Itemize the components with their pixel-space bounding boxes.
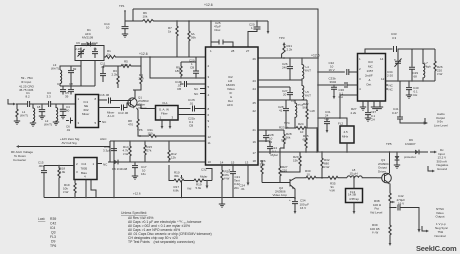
svg-text:¼W: ¼W [324,165,330,169]
svg-text:FL1: FL1 [163,101,169,105]
svg-text:C10: C10 [92,41,98,45]
wire IC3 bottom pins [363,101,380,112]
svg-text:.01: .01 [241,187,246,191]
svg-text:¼ W: ¼ W [372,231,378,235]
wire Q2 collector to video line [296,177,305,179]
wire C18 R14 to rail [113,141,115,198]
transistor Q2 [262,178,296,198]
svg-text:(6¼T): (6¼T) [20,114,28,118]
svg-text:R23 1k: R23 1k [279,126,289,130]
junction C4 [62,103,64,105]
svg-text:20: 20 [283,93,287,97]
svg-text:21: 21 [253,128,257,132]
svg-text:39: 39 [65,95,69,99]
svg-text:16 V: 16 V [300,206,306,210]
wire audio out [399,81,401,111]
svg-text:CB: CB [177,87,181,91]
resistor R11 [149,135,157,138]
svg-text:26: 26 [253,57,257,61]
ground L2 [53,122,59,125]
svg-text:4.5: 4.5 [344,130,349,134]
wire AGC line [110,140,206,142]
potentiometer R38 [389,184,391,206]
svg-text:3.3: 3.3 [392,36,397,40]
ground C4 [60,116,66,119]
resistor R4 [133,57,142,90]
svg-text:Nominal: Nominal [435,234,446,238]
svg-text:1N4007: 1N4007 [405,142,416,146]
junction pin1 bus [210,20,212,22]
resistor R26q [434,49,436,81]
svg-text:2.2k: 2.2k [351,111,357,115]
svg-text:Det: Det [367,83,372,87]
capacitor C14 [122,21,129,34]
svg-text:8.2: 8.2 [26,95,31,99]
capacitor C33 [394,46,397,52]
wire quad bottom row [386,80,436,82]
svg-text:+12.6: +12.6 [139,52,148,56]
node audio out arrow [424,118,426,123]
wire IC3 left input [340,95,358,118]
inductor L2 [56,104,58,122]
wire [33,103,48,105]
wire pot row ground arrow [206,181,208,186]
wire [56,103,76,105]
svg-text:16 V: 16 V [329,68,335,72]
ground below C14 [122,34,128,37]
svg-text:2.2k: 2.2k [112,73,118,77]
ground input R [14,121,20,124]
svg-text:16: 16 [253,140,257,144]
svg-text:3.9k: 3.9k [60,170,66,174]
wire mid rail [140,56,205,58]
wire rail drop x196 [193,57,199,78]
node gnd return arrow [428,166,432,171]
resistor R9 [180,62,196,78]
capacitor C10 [92,48,98,59]
resistor R8 [137,108,140,132]
svg-text:Filter: Filter [161,112,168,116]
resistor R28 [283,130,285,148]
oscillator shield box [75,46,104,61]
wire pin16 stub down [258,141,270,146]
inductor L6 tank3 [295,100,297,128]
inductor L5 tank2 [302,80,304,100]
wire tank1 bottom row pin23 [258,79,302,81]
svg-text:5.6k: 5.6k [196,186,202,190]
svg-text:& LO: & LO [108,114,116,118]
svg-text:C13: C13 [118,111,124,115]
op-amp IC4 regulator [74,158,97,180]
diode D6 [114,160,118,165]
svg-text:MHz: MHz [342,135,349,139]
capacitor C20 [248,21,261,47]
svg-text:protector: protector [404,155,416,159]
resistor R29 [280,152,301,172]
wire video output [414,208,419,230]
wire FL3 stem [353,178,355,189]
svg-text:680: 680 [303,138,308,142]
junction Q2 emitter rail [294,197,296,199]
svg-text:¼W: ¼W [310,109,316,113]
capacitor C26 tank1 [287,58,293,80]
svg-text:27: 27 [246,49,250,53]
svg-text:¼W: ¼W [63,190,69,194]
svg-text:6½T: 6½T [305,69,311,73]
svg-text:Vid Level: Vid Level [370,210,383,214]
svg-text:+: + [289,198,291,202]
svg-text:150: 150 [148,132,153,136]
ground FL3 [353,203,355,212]
svg-text:L6: L6 [291,99,295,103]
svg-text:56k: 56k [286,136,291,140]
wire R5 node [103,65,141,67]
ground below rail [219,198,225,208]
junction R7 top [176,20,178,22]
svg-text:60: 60 [66,108,70,112]
capacitor C8 above IC1 [68,86,74,95]
resistor R5 [118,65,133,68]
resistor R19 [194,179,212,182]
capacitor C16 series to Q1 base [99,98,131,104]
svg-text:CB: CB [189,124,193,128]
wire FL2 bottom [346,143,348,152]
wire bus segment to C20 [205,20,268,22]
resistor R22 [306,100,308,128]
wire osc top rail [60,85,95,87]
svg-text:CB: CB [190,66,194,70]
trimmer capacitor C34q [395,49,402,81]
trimmer capacitor C9 [78,48,85,59]
svg-text:16v: 16v [141,172,146,176]
ground quad pins [371,107,383,110]
svg-text:Trap: Trap [352,197,359,201]
op-amp IC1 NE602 mixer box [76,95,99,128]
svg-text:Mylar: Mylar [271,153,278,157]
svg-text:CH: CH [339,95,343,99]
wire pin1 stub with C19 [211,21,233,47]
wire pin5 row [150,57,206,78]
svg-text:14.3B: 14.3B [348,193,356,197]
svg-text:18: 18 [37,105,41,109]
svg-text:10: 10 [208,160,212,164]
svg-text:Video Amp: Video Amp [273,193,288,197]
svg-text:&: & [369,78,371,82]
capacitor C24 [267,147,273,154]
svg-text:Q3: Q3 [51,231,56,235]
capacitor C13 series lower [99,103,131,111]
svg-text:.001: .001 [38,164,44,168]
wire input line [16,103,27,105]
svg-text:1357: 1357 [367,69,374,73]
svg-text:12: 12 [381,77,385,81]
wire box to IC1 [81,61,95,87]
svg-text:Output: Output [436,215,445,219]
svg-text:1k: 1k [107,53,111,57]
svg-text:2ndIF: 2ndIF [365,74,373,78]
resistor R18 [58,166,60,198]
svg-text:Mylar: Mylar [200,175,207,179]
svg-text:C42: C42 [50,222,56,226]
svg-text:56k: 56k [303,106,308,110]
capacitor C37 [365,113,371,118]
inductor L7 [423,49,425,81]
svg-text:TP Test Points (not separat: TP Test Points (not separately connector… [128,240,195,244]
svg-text:CH: CH [413,93,417,97]
wire FL1 right pins [178,106,206,115]
svg-text:36: 36 [94,47,98,51]
svg-text:TP1: TP1 [119,4,125,8]
svg-text:17: 17 [253,151,257,155]
junction TP1 [124,10,126,12]
resistor R6 [125,20,205,23]
capacitor C34 [292,198,298,211]
svg-text:28: 28 [231,49,235,53]
capacitor C2 [39,104,45,116]
capacitor C42 [390,205,414,211]
svg-text:6½T: 6½T [305,94,311,98]
wire +12.6 top bus [133,9,318,152]
wire IC1 right pin to NC [99,121,102,123]
svg-text:IC4: IC4 [50,226,55,230]
capacitor C36 electrolytic [331,85,337,96]
text NC pins [200,89,206,94]
svg-text:200: 200 [139,77,144,81]
svg-text:.06: .06 [105,93,110,97]
wire FL2 top [327,118,347,126]
svg-text:¼W: ¼W [330,189,336,193]
svg-text:Line Level: Line Level [434,123,448,127]
wire IC4 bottom pins [86,180,96,198]
inductor L3 [60,66,81,86]
svg-text:14: 14 [380,57,384,61]
wire sound row [286,127,296,129]
junction mid rail [149,56,151,58]
svg-text:Mixer: Mixer [82,112,89,116]
junction C20 bus [256,20,258,22]
svg-text:56k: 56k [191,36,196,40]
svg-text:3.3: 3.3 [47,95,52,99]
wire end arrow [267,21,269,31]
svg-text:12k: 12k [171,156,176,160]
svg-text:15: 15 [231,161,235,165]
resistor R19 [74,180,76,198]
svg-text:.01: .01 [189,102,194,106]
resistor R35 [326,176,347,179]
svg-text:TP5: TP5 [386,142,392,146]
diode D8 zener [396,152,398,156]
capacitor C21 tantalum [230,165,236,198]
svg-text:6.8k: 6.8k [173,189,179,193]
svg-text:Ground: Ground [437,167,447,171]
svg-text:TP3: TP3 [279,36,285,40]
svg-text:IC4: IC4 [82,162,87,166]
svg-text:68: 68 [414,75,418,79]
svg-text:14: 14 [220,161,224,165]
svg-text:(6¾T): (6¾T) [51,67,59,71]
svg-text:+12.6: +12.6 [204,3,213,7]
wire R12 down to pot row [169,165,174,181]
wire Q3 collector [389,152,391,173]
op-amp IC2 video IF chip [206,47,259,165]
svg-text:470: 470 [128,123,133,127]
svg-text:30k: 30k [174,174,179,178]
wire tank2 bottom row [258,99,307,101]
junction R21 [283,57,285,59]
svg-text:10: 10 [106,25,110,29]
capacitor C17 [132,162,138,176]
wire bus to IC3 row2 [318,82,358,88]
capacitor C19b [180,81,206,87]
svg-text:2-20: 2-20 [387,74,393,78]
capacitor C40 [406,81,412,95]
svg-text:C16: C16 [99,93,105,97]
svg-text:3902: 3902 [330,80,337,84]
inductor L1 [33,104,35,123]
wire IC4 right NC [97,163,102,165]
wire D6 row [108,161,206,163]
svg-text:High: High [425,65,432,69]
wire emitter node [389,205,391,222]
svg-text:TP6: TP6 [50,244,56,248]
svg-text:¼W: ¼W [224,177,230,181]
ground C37 [365,118,371,121]
svg-text:240: 240 [282,66,287,70]
svg-text:1k: 1k [168,30,172,34]
resistor R input termination [16,104,18,121]
capacitor C15 [41,166,47,198]
svg-text:¼W: ¼W [437,72,443,76]
svg-text:SeekIC.com: SeekIC.com [416,244,457,253]
svg-text:Converter: Converter [13,158,26,162]
wire pot rail drop [181,181,183,198]
capacitor C7 above IC1 [60,86,66,95]
svg-text:Last:: Last: [38,217,45,221]
svg-text:MV2109: MV2109 [82,36,94,40]
svg-text:2.2k: 2.2k [287,47,293,51]
svg-text:0.47: 0.47 [392,111,398,115]
wire sound to bus [316,128,318,152]
svg-text:180: 180 [175,69,180,73]
wire video line [304,176,326,179]
capacitor C32 [206,169,212,181]
resistor R21 [282,45,286,58]
svg-text:Unless Specified:: Unless Specified: [121,211,147,215]
inductor L4 tank1 [302,58,304,80]
wire IC3 top feedback rail [365,49,435,54]
capacitor C4 [60,104,66,116]
resistor R20 [221,165,223,198]
transistor Q1 [128,98,137,107]
svg-text:FL2: FL2 [338,122,344,126]
svg-text:R39: R39 [50,217,56,221]
resistor R3 [117,66,119,88]
wire Q3 base [377,177,382,179]
svg-text:10: 10 [307,173,311,177]
svg-text:IF Input: IF Input [21,80,31,84]
junction R4 [140,56,142,58]
resistor R6A [188,21,190,57]
svg-text:2-10: 2-10 [75,47,81,51]
resistor R1 [104,56,140,59]
svg-text:Disc: Disc [215,28,221,32]
capacitor C41 [397,111,425,123]
wire bus to IC3 row1 [318,69,358,75]
ground D8 [394,165,400,168]
wire IC4 input [44,165,74,167]
svg-text:.01: .01 [66,128,71,132]
svg-text:+12.6: +12.6 [311,54,320,58]
svg-text:25: 25 [253,101,257,105]
ground IC3 pin [360,107,366,110]
wire AGC arrow line [19,141,110,147]
svg-text:41: 41 [279,109,283,113]
svg-text:Vid: Vid [187,187,192,191]
capacitor C28 tank3 [283,100,289,128]
capacitor C30 [263,130,269,142]
resistor R14 [129,141,131,162]
svg-text:24: 24 [253,87,257,91]
svg-text:23: 23 [253,79,257,83]
svg-text:10k: 10k [143,15,148,19]
resistor R7 [176,21,178,57]
capacitor C3 [49,101,56,107]
text dc input arrow [430,151,434,153]
svg-text:.06: .06 [124,111,129,115]
svg-text:¼W: ¼W [123,152,129,156]
svg-text:27k: 27k [147,149,152,153]
capacitor C7b [68,66,74,86]
text IC3 right NC pins [386,85,389,89]
transistor Q3 [382,173,392,183]
svg-text:18: 18 [253,159,257,163]
resistor R32 [321,152,323,178]
capacitor C27 tank2 [287,87,293,100]
resistor R27 [279,148,281,183]
svg-text:13: 13 [245,161,249,165]
svg-text:FL3: FL3 [50,235,56,239]
svg-text:12: 12 [208,135,212,139]
capacitor C29 [409,49,415,81]
ground C17 [132,176,138,179]
resistor R26v [261,160,263,183]
wire pin26 row [258,57,318,59]
resistor R25 [305,128,307,152]
ground C2 [39,116,45,119]
capacitor C18 [111,141,117,162]
svg-text:11: 11 [208,141,211,145]
svg-text:15k: 15k [293,159,298,163]
svg-text:7805: 7805 [81,167,88,171]
svg-text:(6¾T): (6¾T) [44,123,52,127]
wire Q1 collector [135,90,141,98]
svg-text:22: 22 [253,109,257,113]
capacitor C11 [100,66,106,82]
ground arrow R39 [389,240,391,243]
wire pin21 stub [258,129,266,131]
capacitor C31 [318,118,330,130]
capacitor C1 [28,101,33,107]
junction C2 [41,103,43,105]
svg-text:AGC: AGC [100,137,107,141]
svg-text:Driver: Driver [378,169,386,173]
resistor R12 [168,141,170,162]
wire TP1 stem [125,9,133,21]
potentiometer R17 [174,179,194,182]
wire FL1 bottom grounds [162,120,170,126]
wire pin13 stub arrow [247,165,249,183]
svg-text:+: + [229,168,231,172]
